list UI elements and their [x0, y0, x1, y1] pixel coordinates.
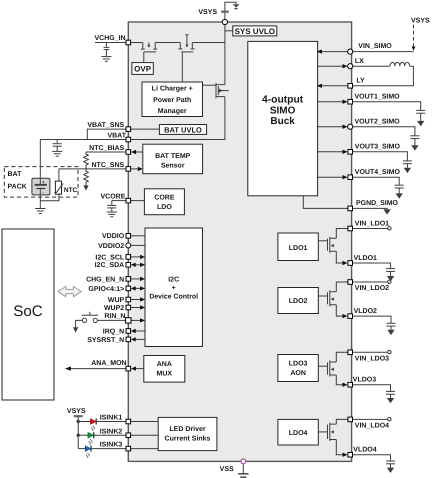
pin IRQ_N	[126, 329, 131, 334]
transistor Q_LDO4	[328, 423, 337, 441]
wire NTC_SNS to thermistor	[58, 169, 60, 181]
pin VOUT3_SIMO	[348, 150, 353, 155]
VSYS rail tick	[221, 10, 229, 12]
label VDDIO2	[98, 243, 124, 250]
LED D3 blue	[78, 446, 91, 458]
svg-text:VCORE: VCORE	[100, 193, 125, 200]
pin GPIO	[126, 286, 131, 291]
ground arrow (C_LDO2)	[387, 330, 394, 335]
svg-text:LDO1: LDO1	[289, 245, 308, 252]
wire charger top rail	[131, 42, 225, 44]
BAT PACK dashed box	[4, 167, 78, 198]
pin VCHG_IN	[126, 40, 131, 45]
wire VIN_LDO1 external	[353, 228, 388, 230]
pin NTC_BIAS	[126, 150, 131, 155]
svg-text:Current Sinks: Current Sinks	[165, 435, 211, 443]
wire VSYS down to battery FET	[224, 43, 226, 85]
svg-text:VIN_LDO1: VIN_LDO1	[355, 220, 389, 227]
label VOUT1_SIMO	[355, 94, 401, 101]
pin VBAT_SNS	[126, 127, 131, 132]
svg-text:Li Charger +: Li Charger +	[152, 84, 193, 92]
wire charger block to Q3	[203, 84, 217, 86]
label VCORE	[100, 193, 125, 200]
pin VIN_SIMO	[348, 49, 353, 54]
svg-text:VIN_SIMO: VIN_SIMO	[358, 43, 392, 50]
wire ANA_MON internal arrow left	[131, 366, 144, 370]
wire VOUT2_SIMO internal arrow out	[317, 125, 348, 129]
LDO2 block	[278, 288, 318, 314]
junction dot ISINK2	[77, 434, 80, 437]
capacitor C_VCORE	[107, 201, 116, 212]
capacitor C_VOUT3	[403, 161, 412, 168]
node VSS circle	[241, 459, 246, 464]
wire VOUT3 external	[353, 152, 408, 161]
wire VSYS internal vertical	[224, 25, 226, 43]
wire VIN_SIMO external	[353, 51, 414, 53]
ground arrow (C_LDO3)	[387, 398, 394, 403]
pin ANA_MON	[126, 366, 131, 371]
wire VOUT3_SIMO internal arrow out	[317, 150, 348, 154]
svg-text:+: +	[172, 285, 176, 292]
capacitor C_LDO4	[386, 461, 395, 468]
wire NTC_SNS external	[59, 168, 126, 170]
wire Q_LDO3 to VLDO3 arrow	[336, 375, 347, 387]
wire CHG_EN_N internal arrow right	[131, 277, 145, 281]
wire VIN_LDO3 external	[353, 351, 388, 353]
transistor Q1 input OVP FET	[141, 43, 157, 52]
wire VOUT4_SIMO internal arrow out	[317, 175, 348, 179]
pin VOUT2_SIMO	[348, 124, 353, 129]
svg-text:Manager: Manager	[158, 108, 187, 115]
ground (battery)	[35, 209, 45, 214]
svg-text:AON: AON	[290, 370, 306, 377]
wire VBAT down to battery	[39, 140, 41, 179]
ground (VBAT cap)	[52, 151, 62, 156]
wire VSYS stem above node	[225, 2, 236, 20]
svg-text:NTC: NTC	[64, 187, 78, 194]
pin VOUT4_SIMO	[348, 175, 353, 180]
pin LX	[348, 64, 353, 69]
svg-text:MUX: MUX	[157, 371, 173, 378]
svg-text:VIN_LDO4: VIN_LDO4	[355, 423, 389, 430]
wire NTC_SNS internal with arrow	[131, 167, 143, 171]
LDO3 AON block	[278, 355, 318, 382]
wire IRQ_N internal arrow left	[131, 329, 145, 333]
label VIN_LDO3	[355, 355, 389, 362]
svg-text:WUP: WUP	[108, 297, 125, 304]
terminal VIN_LDO2	[388, 280, 391, 283]
pin SYSRST_N	[126, 337, 131, 342]
wire LDO1 gate	[318, 240, 327, 242]
label VLDO4	[353, 447, 376, 454]
label I2C_SCL	[95, 254, 125, 261]
SYS UVLO block	[233, 26, 277, 36]
capacitor C_LDO3	[386, 391, 395, 398]
wire button to RIN_N pin	[97, 319, 126, 321]
wire LED rail vertical	[77, 416, 79, 448]
BAT UVLO block	[159, 125, 206, 135]
pin NTC_SNS	[126, 167, 131, 172]
ground arrow (PGND)	[383, 209, 390, 214]
wire VOUT4 external	[353, 177, 400, 185]
svg-text:IRQ_N: IRQ_N	[103, 328, 124, 335]
wire Q_LDO2 to VLDO2 arrow	[336, 305, 347, 319]
Li Charger + Power Path Manager block	[142, 82, 203, 117]
svg-text:VIN_LDO3: VIN_LDO3	[355, 355, 389, 362]
wire VOUT1 external	[353, 102, 421, 110]
wire VIN_LDO4 internal	[336, 419, 348, 424]
terminal VIN_LDO1	[388, 227, 391, 230]
label VLDO3	[353, 377, 376, 384]
wire VLDO3 external	[353, 385, 391, 391]
4-output SIMO Buck block	[248, 41, 318, 195]
pin VLDO2	[348, 314, 353, 319]
svg-text:BAT UVLO: BAT UVLO	[164, 125, 202, 134]
battery BT1	[32, 178, 50, 195]
wire GPIO internal double arrow	[131, 286, 145, 290]
svg-text:SYS UVLO: SYS UVLO	[235, 27, 275, 36]
pin WUP2	[126, 305, 131, 310]
label VOUT3_SIMO	[355, 144, 401, 151]
node VSYS label top	[198, 9, 217, 16]
svg-text:LDO2: LDO2	[289, 298, 308, 305]
wire VIN_LDO1 internal	[336, 229, 348, 239]
pin VLDO1	[348, 261, 353, 266]
ground arrow (C_VOUT2)	[411, 145, 418, 150]
label ISINK3	[100, 442, 123, 449]
wire VIN_LDO3 internal	[336, 352, 348, 362]
OVP block	[132, 63, 153, 75]
resistor R_BIAS	[84, 152, 89, 169]
svg-text:RIN_N: RIN_N	[104, 313, 125, 320]
svg-text:LDO: LDO	[157, 204, 172, 211]
wire VBAT external	[40, 139, 126, 141]
SoC block	[2, 229, 54, 400]
svg-text:VCHG_IN: VCHG_IN	[94, 35, 125, 42]
pin WUP	[126, 297, 131, 302]
junction dot ISINK1	[77, 420, 80, 423]
svg-text:I2C_SCL: I2C_SCL	[95, 254, 125, 261]
wire VOUT1_SIMO internal arrow out	[317, 100, 348, 104]
svg-text:VOUT1_SIMO: VOUT1_SIMO	[355, 94, 401, 101]
svg-text:I2C_SDA: I2C_SDA	[95, 262, 125, 269]
LED D2 green	[78, 432, 94, 444]
wire VOUT2 external	[353, 127, 415, 136]
pin VIN_LDO1	[348, 226, 353, 231]
pin CHG_EN_N	[126, 277, 131, 282]
label IRQ_N	[103, 328, 124, 335]
wire thermistor to battery minus	[40, 194, 59, 201]
pin PGND_SIMO	[348, 206, 353, 211]
ground arrow (C_LDO4)	[387, 468, 394, 473]
svg-text:VBAT_SNS: VBAT_SNS	[87, 122, 124, 129]
capacitor C_LDO2	[387, 323, 396, 330]
label VLDO2	[354, 308, 377, 315]
wire Q2 gate to charger block	[181, 52, 183, 82]
wire PGND external	[353, 207, 388, 210]
label VCHG_IN	[94, 35, 125, 42]
ground (VCORE cap)	[107, 212, 117, 217]
svg-text:NTC_SNS: NTC_SNS	[92, 162, 125, 169]
wire Q_LDO4 to VLDO4 arrow	[336, 440, 347, 457]
wire I2C_SCL internal arrow right	[131, 255, 145, 259]
LDO1 block	[278, 233, 318, 261]
wire VSS to ground	[242, 464, 244, 474]
svg-text:ANA: ANA	[157, 361, 172, 368]
wire to SYS UVLO	[225, 30, 233, 32]
svg-text:ISINK3: ISINK3	[100, 442, 123, 449]
label VLDO1	[354, 255, 377, 262]
label LY	[356, 78, 365, 85]
svg-text:PACK: PACK	[8, 183, 27, 190]
transistor Q3 battery FET	[216, 83, 229, 98]
pin RIN_N	[126, 318, 131, 323]
svg-text:SIMO: SIMO	[270, 105, 296, 116]
label VDDIO	[102, 233, 125, 240]
pin VCORE	[126, 198, 131, 203]
svg-text:BAT: BAT	[8, 171, 23, 178]
svg-text:BAT TEMP: BAT TEMP	[155, 153, 191, 160]
wire ISINK3	[91, 448, 126, 450]
wire PGND_SIMO internal	[303, 196, 347, 209]
BAT TEMP Sensor block	[143, 144, 203, 174]
svg-text:PGND_SIMO: PGND_SIMO	[356, 200, 399, 207]
label I2C_SDA	[95, 262, 125, 269]
pin VLDO4	[348, 452, 353, 457]
wire ISINK1	[96, 421, 126, 423]
capacitor C_VOUT1	[416, 110, 425, 121]
pin ISINK2	[126, 433, 131, 438]
wire VLDO4 external	[353, 455, 391, 461]
svg-text:VLDO1: VLDO1	[354, 255, 377, 262]
label RIN_N	[104, 313, 125, 320]
label ISINK1	[100, 415, 123, 422]
label GPIO<4:1>	[88, 286, 124, 293]
pin VLDO3	[348, 382, 353, 387]
wire Q1 gate to OVP	[143, 52, 145, 63]
pin I2C_SDA	[126, 263, 131, 268]
svg-text:SoC: SoC	[13, 303, 43, 320]
LED Driver Current Sinks block	[158, 417, 217, 450]
svg-text:VBAT: VBAT	[107, 133, 126, 140]
CORE LDO block	[144, 189, 184, 215]
pin VIN_LDO2	[348, 280, 353, 285]
svg-text:Device Control: Device Control	[149, 293, 198, 300]
pin I2C_SCL	[126, 255, 131, 260]
capacitor C_VOUT2	[410, 136, 419, 146]
power arrow to loads	[233, 4, 240, 8]
wire VCHG_IN external	[95, 42, 126, 44]
svg-text:CHG_EN_N: CHG_EN_N	[86, 276, 124, 283]
wire LY internal arrow into SIMO	[317, 84, 348, 88]
svg-text:VOUT2_SIMO: VOUT2_SIMO	[355, 119, 401, 126]
pin ISINK1	[126, 419, 131, 424]
wire VLDO1 external	[353, 263, 391, 268]
wire WUP2 internal arrow right	[131, 305, 145, 309]
inductor L1	[353, 62, 414, 86]
svg-text:VSYS: VSYS	[411, 17, 430, 24]
wire button to down arrow	[73, 320, 83, 332]
capacitor C_VBAT	[53, 140, 62, 152]
label ISINK2	[100, 428, 123, 435]
pin VDDIO	[126, 234, 131, 239]
label VIN_LDO4	[355, 423, 389, 430]
label WUP2	[104, 305, 124, 312]
ground arrow (C_VOUT3)	[404, 168, 411, 173]
svg-text:VLDO2: VLDO2	[354, 308, 377, 315]
pin VIN_LDO3	[348, 350, 353, 355]
wire SYSRST_N internal arrow left	[131, 337, 145, 341]
label VOUT2_SIMO	[355, 119, 401, 126]
pin ISINK3	[126, 446, 131, 451]
svg-text:ANA_MON: ANA_MON	[91, 360, 126, 367]
svg-text:LX: LX	[355, 58, 364, 65]
wire LDO3 gate	[318, 365, 327, 367]
svg-text:VLDO4: VLDO4	[353, 447, 376, 454]
svg-text:VOUT3_SIMO: VOUT3_SIMO	[355, 144, 401, 151]
transistor Q2 charger FET	[179, 35, 195, 52]
pin VOUT1_SIMO	[348, 99, 353, 104]
svg-text:VSYS: VSYS	[67, 408, 86, 415]
svg-text:4-output: 4-output	[262, 95, 304, 106]
label CHG_EN_N	[86, 276, 124, 283]
wire VDDIO2 internal	[131, 244, 145, 246]
wire Q_LDO1 to VLDO1 arrow	[336, 251, 347, 265]
LED D1 red	[78, 419, 96, 431]
svg-text:I2C: I2C	[168, 276, 179, 283]
label VIN_SIMO	[358, 43, 392, 50]
svg-text:ISINK2: ISINK2	[100, 428, 123, 435]
I2C + Device Control block U2	[145, 228, 203, 347]
transistor Q_LDO3	[328, 361, 337, 377]
wire VIN_LDO4 external	[353, 418, 388, 420]
svg-text:VIN_LDO2: VIN_LDO2	[355, 285, 389, 292]
transistor Q_LDO1	[328, 237, 337, 253]
svg-text:LDO3: LDO3	[289, 361, 308, 368]
ground (VSS)	[238, 474, 248, 477]
svg-text:ISINK1: ISINK1	[100, 415, 123, 422]
svg-text:VOUT4_SIMO: VOUT4_SIMO	[355, 169, 401, 176]
wire VBAT_SNS external	[87, 129, 126, 139]
label ANA_MON	[91, 360, 126, 367]
VSYS LED rail tick	[74, 415, 83, 417]
label PGND_SIMO	[356, 200, 399, 207]
ground arrow (C_VOUT1)	[417, 121, 424, 126]
thermistor NTC	[54, 181, 77, 194]
label VIN_LDO1	[355, 220, 389, 227]
svg-text:WUP2: WUP2	[104, 305, 124, 312]
wire Q3 to VBAT rail	[131, 97, 225, 140]
label VIN_LDO2	[355, 285, 389, 292]
wire RIN_N internal arrow right	[131, 318, 145, 322]
main PMIC block U1	[128, 22, 351, 461]
label VSYS (LED rail)	[67, 408, 86, 415]
label LX	[355, 58, 364, 65]
svg-text:NTC_BIAS: NTC_BIAS	[89, 145, 124, 152]
wire VCORE internal	[131, 200, 145, 202]
svg-text:VDDIO: VDDIO	[102, 233, 125, 240]
svg-text:CORE: CORE	[154, 195, 175, 202]
wire VIN_SIMO internal arrow into SIMO	[317, 49, 348, 53]
capacitor C_LDO1	[386, 269, 395, 276]
svg-text:VLDO3: VLDO3	[353, 377, 376, 384]
wire LDO4 gate	[318, 431, 327, 433]
svg-text:Power Path: Power Path	[153, 96, 191, 104]
svg-text:VSS: VSS	[220, 466, 234, 473]
terminal VIN_LDO3	[388, 350, 391, 353]
svg-text:Buck: Buck	[270, 116, 295, 127]
svg-text:LED Driver: LED Driver	[169, 425, 205, 433]
wire VIN_LDO2 internal	[336, 282, 348, 292]
pushbutton SW1 on RIN_N	[82, 312, 99, 323]
wire I2C_SDA internal double arrow	[131, 263, 145, 267]
wire ISINK1 internal	[131, 421, 159, 423]
wire NTC_BIAS external	[86, 151, 126, 153]
wire ISINK2 internal	[131, 434, 159, 436]
wire ANA_MON external arrow to SoC	[65, 366, 126, 370]
label VSYS (top right)	[411, 17, 430, 24]
label NTC_SNS	[92, 162, 125, 169]
transistor Q_LDO2	[328, 290, 337, 306]
svg-text:VDDIO2: VDDIO2	[98, 243, 124, 250]
svg-text:LY: LY	[356, 78, 365, 85]
wire LDO2 gate	[318, 295, 327, 297]
svg-text:SYSRST_N: SYSRST_N	[87, 337, 124, 344]
svg-text:OVP: OVP	[134, 65, 152, 74]
svg-text:+: +	[42, 179, 45, 184]
ground (VCHG cap)	[101, 57, 111, 62]
label SYSRST_N	[87, 337, 124, 344]
svg-text:LDO4: LDO4	[289, 430, 308, 437]
label NTC_BIAS	[89, 145, 124, 152]
wire VLDO2 external	[353, 316, 392, 323]
pin VDDIO2	[126, 243, 131, 248]
wire VBAT_SNS internal to BAT UVLO	[131, 128, 160, 130]
wire ISINK3 internal	[131, 448, 159, 450]
wire VDDIO internal	[131, 235, 145, 237]
svg-text:VSYS: VSYS	[198, 9, 217, 16]
capacitor C_CHG	[104, 43, 110, 57]
ANA MUX block	[144, 356, 185, 383]
label VBAT	[107, 133, 126, 140]
wire battery to ground	[39, 195, 41, 208]
wire VSYS dashed drop	[412, 25, 416, 51]
bus double arrow SoC	[58, 287, 81, 297]
wire LX internal arrow out	[317, 64, 348, 68]
label VBAT_SNS	[87, 122, 124, 129]
node VSYS circle	[222, 19, 227, 24]
svg-text:Sensor: Sensor	[161, 163, 185, 170]
resistor R_PD with down arrow	[83, 169, 88, 191]
label VSS	[220, 466, 234, 473]
capacitor C_VOUT4	[395, 185, 404, 193]
label WUP	[108, 297, 125, 304]
wire ISINK2	[94, 434, 126, 436]
svg-text:GPIO<4:1>: GPIO<4:1>	[88, 286, 124, 293]
label VOUT4_SIMO	[355, 169, 401, 176]
LDO4 block	[278, 419, 318, 445]
pin VIN_LDO4	[348, 417, 353, 422]
wire VCORE external	[112, 200, 126, 202]
pin LY	[348, 84, 353, 89]
wire NTC_BIAS internal with arrow	[131, 150, 143, 154]
terminal VIN_LDO4	[388, 418, 391, 421]
wire VIN_LDO2 external	[353, 281, 388, 283]
pin VBAT	[126, 137, 131, 142]
ground arrow (C_VOUT4)	[396, 193, 403, 198]
ground arrow (C_LDO1)	[387, 276, 394, 281]
wire WUP internal arrow right	[131, 297, 145, 301]
